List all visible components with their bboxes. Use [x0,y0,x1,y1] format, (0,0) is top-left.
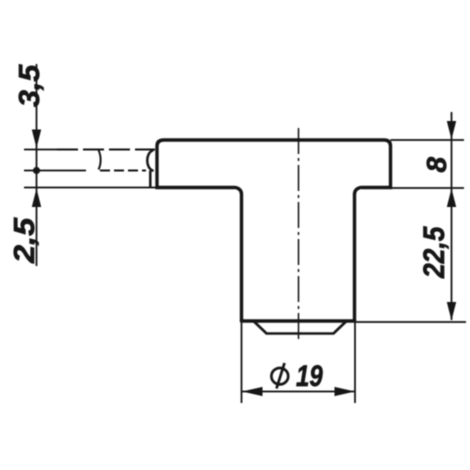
svg-text:19: 19 [296,358,323,392]
svg-text:2,5: 2,5 [8,217,41,264]
svg-text:8: 8 [421,157,452,173]
svg-text:22,5: 22,5 [416,225,450,279]
svg-text:3,5: 3,5 [14,64,46,107]
